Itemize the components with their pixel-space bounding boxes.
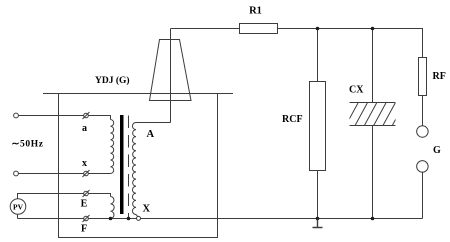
wire top bus right segment (R1 to top-right corner and down to RF) (278, 29, 423, 58)
svg-text:G: G (433, 145, 441, 156)
wire bottom bus (18, 218, 423, 220)
spark gap sphere upper (417, 126, 429, 138)
bushing trapezoid (150, 40, 192, 101)
node junction R1-RCF (316, 27, 320, 31)
core bar (120, 115, 124, 214)
svg-text:PV: PV (13, 203, 24, 212)
node junction CX bottom (371, 217, 375, 221)
wire HV lead vertical through bushing (170, 29, 172, 123)
terminal E (disconnect) (83, 190, 90, 197)
source terminal upper (14, 113, 19, 118)
spark gap sphere lower (417, 161, 429, 173)
svg-text:∼50Hz: ∼50Hz (12, 140, 44, 150)
wire top bus left segment (HV lead corner to R1) (171, 28, 240, 30)
node junction RCF bottom (316, 217, 320, 221)
node junction EF winding bottom (109, 217, 113, 221)
primary winding a-x (111, 120, 114, 174)
voltmeter winding E-F (111, 197, 115, 219)
svg-text:A: A (147, 129, 155, 140)
node junction core ground (127, 217, 131, 221)
wire CX branch lower (372, 126, 374, 219)
wire RCF branch upper (317, 29, 319, 82)
core dashed ground line (128, 116, 130, 219)
tank box (YDJ test transformer enclosure) (59, 94, 218, 238)
wire RCF branch lower (317, 171, 319, 219)
wire x row (19, 173, 111, 175)
source terminal lower (14, 171, 19, 176)
wire RF to sphere gap (422, 96, 424, 126)
resistor R1 (240, 24, 278, 34)
capacitor CX hatched box (336, 103, 404, 127)
wire secondary top to HV lead (136, 122, 171, 124)
wire lower sphere to bottom bus (422, 172, 424, 218)
wire CX branch upper (372, 29, 374, 103)
svg-text:RCF: RCF (282, 114, 303, 125)
secondary winding A-X (132, 123, 136, 215)
resistor RCF (310, 82, 326, 171)
wire a row (19, 116, 111, 120)
resistor RF (419, 58, 427, 96)
svg-text:E: E (81, 199, 88, 210)
svg-text:YDJ (G): YDJ (G) (95, 75, 130, 86)
wire PV bottom stub (17, 214, 19, 218)
svg-text:x: x (82, 158, 87, 169)
wire secondary bottom to X terminal (136, 215, 138, 217)
svg-text:a: a (82, 123, 87, 134)
terminal X of secondary (open circle) (137, 216, 141, 220)
node junction R1-CX (371, 27, 375, 31)
terminal a (disconnect) (83, 112, 90, 119)
terminal F (disconnect) (83, 215, 90, 222)
svg-text:X: X (143, 204, 151, 215)
svg-text:R1: R1 (249, 6, 262, 17)
svg-text:RF: RF (433, 71, 446, 82)
tank lid line (43, 93, 233, 95)
svg-text:F: F (81, 224, 87, 235)
voltmeter PV (10, 199, 26, 215)
ground (313, 219, 323, 228)
wire E row (18, 194, 111, 199)
svg-text:CX: CX (349, 85, 364, 96)
terminal x (disconnect) (83, 170, 90, 177)
